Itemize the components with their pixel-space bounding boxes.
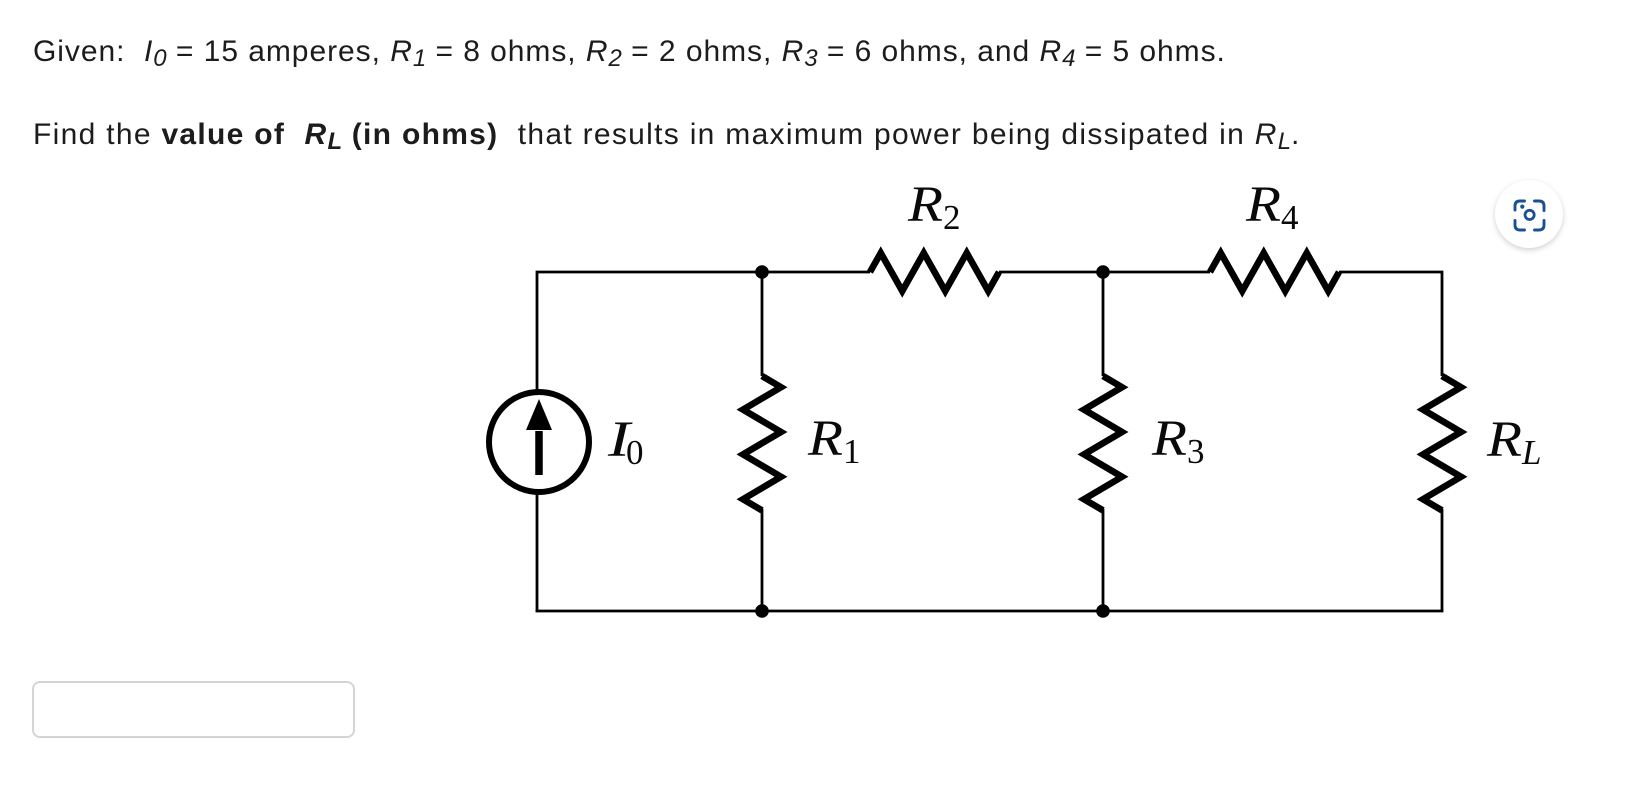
wire: R3 top stub xyxy=(1102,272,1105,376)
current source I0 xyxy=(489,392,589,492)
wire: left vertical below current source xyxy=(536,492,539,612)
wire: top segment between R2 and R4 xyxy=(999,271,1210,274)
wire: R1 bottom stub xyxy=(761,509,764,611)
junction node: top of R1 xyxy=(755,265,769,279)
resistor R4 xyxy=(1210,253,1339,291)
wire: top-right segment from R4 to right corner xyxy=(1339,272,1442,376)
wire: RL bottom stub xyxy=(1441,509,1444,611)
wire: bottom rail xyxy=(536,610,1444,613)
svg-text:RL: RL xyxy=(1486,412,1542,472)
resistor R1 xyxy=(743,376,781,510)
camera/focus icon button xyxy=(1495,180,1563,248)
question text line 1 xyxy=(33,35,1226,69)
svg-text:I0: I0 xyxy=(607,412,644,472)
wire: R3 bottom stub xyxy=(1102,509,1105,611)
wire: R1 top stub xyxy=(761,272,764,376)
junction node: bottom of R1 xyxy=(755,604,769,618)
wire: top-left segment from source to resistor R2 xyxy=(537,272,870,391)
svg-text:R3: R3 xyxy=(1151,411,1205,471)
junction node: bottom of R3 xyxy=(1096,604,1110,618)
question text line 2 xyxy=(33,118,1301,152)
resistor R3 xyxy=(1084,376,1122,510)
resistor RL xyxy=(1423,376,1461,510)
svg-text:R1: R1 xyxy=(807,411,861,471)
resistor R2 xyxy=(870,253,999,291)
answer input box xyxy=(32,681,355,738)
junction node: top of R3 xyxy=(1096,265,1110,279)
svg-text:R4: R4 xyxy=(1245,177,1299,237)
svg-text:R2: R2 xyxy=(907,177,961,237)
